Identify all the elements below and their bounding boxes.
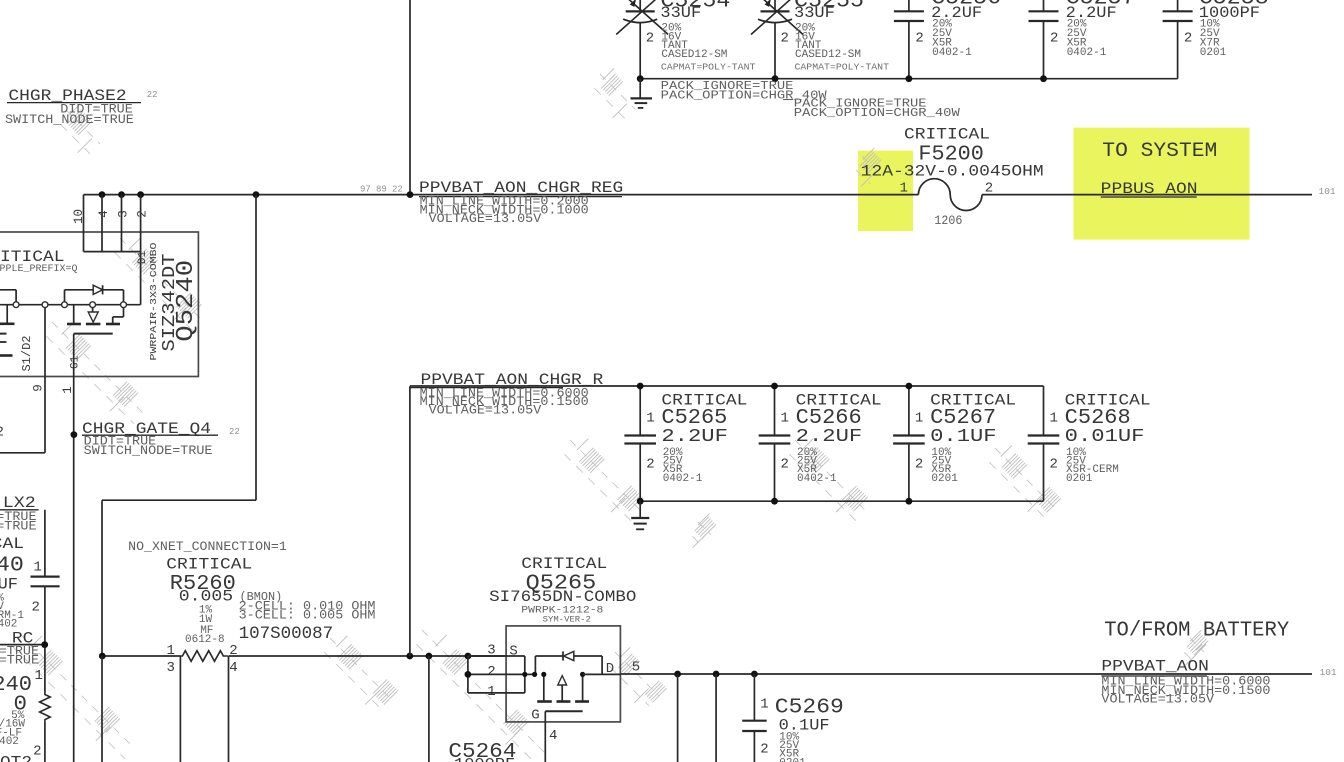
svg-text:1: 1 (915, 411, 923, 427)
svg-text:5: 5 (632, 659, 640, 675)
wire PPVBAT_AON_CHGR_R vertical (409, 386, 411, 656)
svg-text:22: 22 (147, 90, 158, 100)
svg-text:1: 1 (61, 386, 75, 394)
wire PPVBAT_AON_CHGR_REG (horizontal, left of fuse) (84, 194, 919, 196)
capacitor C5269 (0.1UF) (742, 674, 767, 762)
svg-text:107S00087: 107S00087 (239, 624, 334, 644)
svg-text:S1/D2: S1/D2 (20, 335, 34, 371)
svg-text:0402-1: 0402-1 (797, 473, 837, 485)
svg-text:0402-1: 0402-1 (1067, 47, 1107, 59)
fuse F5200 (918, 179, 982, 211)
svg-text:1UF: 1UF (0, 576, 18, 594)
junction top rail / C5257 (1040, 75, 1047, 82)
wire pin 9 (S1/D2) exit (0, 305, 45, 453)
left MOSFET extra bars (cut) (0, 342, 13, 356)
capacitor C5255 (33UF tant, crossed out) (751, 0, 803, 79)
svg-text:0402-1: 0402-1 (663, 473, 703, 485)
wire Q5265 pin1 (468, 692, 525, 694)
svg-text:G: G (531, 708, 539, 724)
svg-text:APPLE_PREFIX=Q: APPLE_PREFIX=Q (0, 264, 78, 275)
svg-text:2: 2 (915, 30, 923, 46)
svg-text:2: 2 (487, 664, 495, 680)
wire below junction (101, 656, 103, 762)
svg-text:2: 2 (760, 742, 768, 758)
svg-text:0612-8: 0612-8 (185, 634, 225, 646)
svg-text:3-CELL: 0.005 OHM: 3-CELL: 0.005 OHM (239, 609, 376, 623)
label C5269 (775, 696, 844, 762)
label C5254 values (660, 0, 756, 72)
svg-text:0201: 0201 (931, 473, 958, 485)
svg-text:CRITICAL: CRITICAL (521, 555, 607, 573)
wire caps bottom rail (640, 500, 1043, 502)
svg-text:1000PF: 1000PF (454, 755, 515, 762)
junction main wire / pin2 stub (137, 191, 144, 198)
svg-text:12A-32V-0.0045OHM: 12A-32V-0.0045OHM (861, 162, 1044, 180)
wire Q5240 internal node (0, 304, 141, 306)
wire jog to R5260 (102, 500, 256, 656)
wire mid vertical (main to R5260) (255, 195, 257, 501)
svg-text:1: 1 (35, 668, 43, 684)
capacitor C5267 (0.1UF) (893, 386, 925, 501)
junction PPVBAT / drop 2 (713, 671, 720, 678)
svg-text:PPVBAT_AON: PPVBAT_AON (1101, 658, 1209, 676)
svg-text:NO_XNET_CONNECTION=1: NO_XNET_CONNECTION=1 (128, 539, 287, 554)
svg-text:0402-1: 0402-1 (932, 47, 972, 59)
svg-text:1: 1 (760, 697, 768, 713)
net label PPVBAT_AON (1101, 658, 1270, 707)
transistor Q5265 outline box (506, 626, 620, 722)
svg-text:2: 2 (136, 210, 150, 218)
svg-text:0402: 0402 (0, 736, 19, 748)
wire PPVBAT_AON_CHGR_R rail (410, 385, 1044, 387)
svg-text:VOLTAGE=13.05V: VOLTAGE=13.05V (429, 404, 542, 418)
resistor R5260 (180, 651, 227, 662)
net label PPBUS_AON (1101, 180, 1198, 198)
svg-text:CAPMAT=POLY-TANT: CAPMAT=POLY-TANT (795, 62, 890, 72)
wire top capacitor bottom rail (640, 78, 1177, 80)
svg-text:1: 1 (1050, 411, 1058, 427)
svg-text:33UF: 33UF (660, 4, 701, 22)
svg-text:2: 2 (646, 457, 654, 473)
wire drop 2 (715, 674, 717, 762)
label C5268 (1065, 391, 1151, 485)
label C5266 (796, 391, 882, 485)
svg-text:2: 2 (781, 31, 789, 47)
junction bottom wire / C5264 (426, 653, 433, 660)
wire pin tie verticals (468, 656, 525, 693)
svg-text:2: 2 (0, 424, 4, 440)
svg-text:2: 2 (1050, 30, 1058, 46)
svg-text:3: 3 (117, 210, 131, 218)
junction pin2 / tie bar (522, 672, 527, 677)
svg-text:SWITCH_NODE=TRUE: SWITCH_NODE=TRUE (84, 444, 213, 458)
junction PPVBAT / C5269 (751, 671, 758, 678)
svg-text:22: 22 (229, 427, 240, 437)
svg-text:0.01UF: 0.01UF (1065, 426, 1145, 447)
svg-text:PWRPAIR-3X3-COMBO: PWRPAIR-3X3-COMBO (148, 242, 159, 360)
junction rail / C5267 (906, 383, 913, 390)
svg-text:PPBUS_AON: PPBUS_AON (1101, 180, 1198, 198)
junction CHGR_GATE_Q4 (71, 431, 78, 438)
ground (top rail) (631, 79, 653, 108)
wire gate G1 / CHGR_GATE_Q4 (73, 334, 75, 762)
transistor Q5240 outline box (0, 232, 198, 377)
svg-text:1: 1 (34, 560, 42, 576)
junction RC (41, 641, 48, 648)
svg-text:SYM-VER-2: SYM-VER-2 (543, 615, 591, 624)
junction main wire / vertical (407, 191, 414, 198)
wire capacitor C5264 drop (428, 656, 430, 762)
capacitor C5266 (2.2UF) (759, 386, 791, 501)
svg-text:SI7655DN-COMBO: SI7655DN-COMBO (489, 588, 636, 606)
wire R5260 pin4 sense drop (228, 656, 230, 762)
transistor Q5265 internal MOSFET (535, 651, 602, 711)
junction top rail / C5254 (637, 75, 644, 82)
svg-text:CASED12-SM: CASED12-SM (661, 49, 727, 61)
junction main wire / mid vertical (253, 191, 260, 198)
capacitor C5256 (2.2UF) (894, 0, 924, 79)
wire PPVBAT_AON (621, 673, 1312, 675)
svg-text:2.2UF: 2.2UF (661, 426, 728, 447)
wire bracket pins 10/4/3/2 (84, 195, 141, 252)
wire Q5240 left diode branch (cut) (0, 290, 16, 305)
svg-text:0.1UF: 0.1UF (930, 426, 997, 447)
ground (caps bottom rail) (631, 501, 649, 529)
svg-text:2: 2 (1184, 30, 1192, 46)
label C5267 (930, 391, 1016, 485)
wire Q5265 drain to pin 5 (583, 673, 622, 675)
svg-text:97: 97 (360, 184, 371, 194)
svg-text:PACK_OPTION=CHGR_40W: PACK_OPTION=CHGR_40W (794, 107, 960, 120)
net label CHGR_PHASE2 (5, 87, 141, 127)
svg-text:101: 101 (1319, 186, 1336, 197)
label C5256 values (931, 0, 1001, 59)
junction main wire / pin4 stub (99, 191, 106, 198)
svg-text:CRITICAL: CRITICAL (0, 535, 24, 553)
wire bottom rail (R5260 left) (102, 655, 180, 657)
junction bottom / C5267 (906, 498, 913, 505)
svg-text:101: 101 (1320, 667, 1337, 678)
svg-text:3: 3 (167, 660, 175, 676)
label C5255 values (794, 0, 890, 72)
svg-text:2: 2 (646, 31, 654, 47)
svg-text:Q5240: Q5240 (173, 260, 200, 342)
node circles (Q5240 internal pins) (13, 302, 126, 308)
svg-text:SWITCH_NODE=TRUE: SWITCH_NODE=TRUE (0, 519, 37, 533)
junction rail / C5266 (771, 383, 778, 390)
junction drain drop (580, 672, 585, 677)
junction source drop (541, 672, 546, 677)
svg-text:SWITCH_NODE=TRUE: SWITCH_NODE=TRUE (5, 113, 134, 127)
label PACK attrs (right) (783, 98, 960, 121)
svg-text:D: D (606, 661, 614, 677)
junction bottom wire / mid jog (99, 653, 106, 660)
highlight box (fuse pin 1) (858, 151, 913, 232)
wire Q5265 gate pin 4 (544, 711, 546, 762)
label PACK attrs (left) (661, 80, 827, 102)
svg-text:VOLTAGE=13.05V: VOLTAGE=13.05V (429, 212, 542, 226)
svg-text:1: 1 (900, 180, 908, 196)
svg-text:22: 22 (392, 184, 403, 194)
svg-text:0201: 0201 (779, 757, 806, 762)
junction pin2 tie (465, 671, 472, 678)
junction bottom wire / Q5265 pins (465, 653, 472, 660)
svg-text:9: 9 (32, 384, 46, 392)
svg-text:0.005: 0.005 (179, 588, 233, 606)
svg-text:2: 2 (33, 744, 41, 760)
capacitor C5268 (0.01UF) (1028, 386, 1060, 501)
svg-text:VOLTAGE=13.05V: VOLTAGE=13.05V (1101, 693, 1214, 707)
svg-text:OT2: OT2 (0, 754, 32, 762)
diode (Q5240 body diode) (65, 285, 124, 305)
wire bottom rail (R5260 to Q5265) (229, 655, 507, 657)
capacitor C5254 (33UF tant, crossed out) (616, 0, 668, 79)
transistor Q5240 left MOSFET (partial) (0, 305, 15, 334)
transistor Q5240 right MOSFET (67, 305, 124, 334)
svg-text:2: 2 (1050, 457, 1058, 473)
net label CHGR_GATE_Q4 (82, 420, 218, 458)
svg-text:0201: 0201 (1200, 47, 1227, 59)
svg-text:4: 4 (549, 728, 557, 744)
svg-text:1: 1 (646, 411, 654, 427)
label pin refs 97 89 22 (360, 184, 403, 194)
svg-text:G1: G1 (70, 355, 82, 369)
svg-text:CRITICAL: CRITICAL (166, 556, 252, 574)
label C5265 (661, 391, 747, 485)
net label PPVBAT_AON_CHGR_R (410, 371, 604, 418)
wire Q5265 pin2 (468, 673, 535, 675)
svg-text:1206: 1206 (934, 214, 962, 228)
junction bottom wire / CHGR_R vertical (406, 653, 413, 660)
junction rail / C5265 (637, 383, 644, 390)
capacitor C5257 (2.2UF) (1029, 0, 1059, 79)
svg-text:2: 2 (781, 457, 789, 473)
wire pin2/D1 stub (140, 195, 142, 305)
svg-text:0201: 0201 (1066, 473, 1093, 485)
wire PPBUS_AON (right of fuse) (982, 194, 1312, 196)
resistor R5240 (cut at left edge) (0, 647, 50, 762)
highlight box (TO SYSTEM / PPBUS_AON) (1074, 128, 1250, 240)
wire drop 1 (677, 674, 679, 762)
label C5258 values (1199, 0, 1269, 59)
junction bottom / C5266 (771, 498, 778, 505)
svg-text:TO SYSTEM: TO SYSTEM (1102, 140, 1217, 163)
svg-text:33UF: 33UF (794, 4, 835, 22)
label 2-CELL/3-CELL (239, 600, 376, 623)
svg-text:2.2UF: 2.2UF (796, 426, 863, 447)
svg-text:C5240: C5240 (0, 554, 24, 578)
net label PPVBAT_AON_CHGR_REG (419, 179, 623, 226)
junction top rail / C5255 (772, 75, 779, 82)
wire PPVBAT_AON_CHGR_REG (vertical from top) (409, 0, 411, 195)
svg-text:CRITICAL: CRITICAL (904, 126, 990, 144)
wire R5260 pin3 sense drop (179, 656, 181, 762)
junction bottom / C5265 (637, 498, 644, 505)
svg-text:D1: D1 (137, 251, 149, 265)
junction main wire / pin3 stub (118, 191, 125, 198)
svg-text:2: 2 (32, 600, 40, 616)
chevron mark (1196, 644, 1206, 651)
junction PPVBAT / drop 1 (674, 671, 681, 678)
capacitor C5240 (cut at left edge) (0, 510, 60, 645)
svg-text:10: 10 (72, 209, 86, 224)
label R5260 attrs (185, 604, 225, 646)
net label LX2 (cut) (0, 494, 39, 533)
svg-text:SWITCH_NODE=TRUE: SWITCH_NODE=TRUE (0, 654, 39, 668)
svg-text:4: 4 (229, 660, 237, 676)
svg-text:1: 1 (781, 411, 789, 427)
capacitor C5265 (2.2UF) (624, 386, 656, 501)
capacitor C5258 (1000PF) (1163, 0, 1193, 79)
junction top rail / C5256 (906, 75, 913, 82)
svg-text:TO/FROM BATTERY: TO/FROM BATTERY (1104, 619, 1289, 643)
junction source riser (532, 672, 537, 677)
svg-text:CAPMAT=POLY-TANT: CAPMAT=POLY-TANT (661, 62, 756, 72)
svg-text:1: 1 (167, 643, 175, 659)
wire Q5265 pin3 (S) (468, 655, 525, 657)
label C5257 values (1066, 0, 1136, 59)
net label RC (cut) (0, 630, 45, 668)
svg-text:S: S (509, 643, 517, 659)
svg-text:89: 89 (376, 184, 387, 194)
svg-text:4: 4 (97, 210, 111, 218)
svg-text:CASED12-SM: CASED12-SM (795, 49, 861, 61)
svg-text:2: 2 (915, 457, 923, 473)
svg-text:2: 2 (985, 180, 993, 196)
